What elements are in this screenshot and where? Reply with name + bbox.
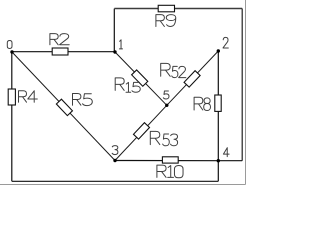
- wire top horizontal through R9: [114, 8, 242, 10]
- resistor R52 body rotated: [184, 71, 200, 87]
- label R15 with subscript: [115, 78, 140, 92]
- wire node0 down left leg: [11, 52, 13, 181]
- wire right edge to node4: [218, 160, 242, 162]
- node label 4: [223, 148, 229, 157]
- wire diagonal node2-node5 through R52: [167, 51, 219, 105]
- resistor R9 body: [158, 5, 174, 12]
- page frame right edge: [245, 0, 247, 185]
- resistor R53 body rotated: [133, 123, 149, 139]
- node label 3: [112, 146, 118, 155]
- resistor R10 body: [162, 157, 178, 163]
- label R52 with subscript: [161, 63, 186, 77]
- label R4: [19, 91, 38, 102]
- resistor R2 body: [52, 48, 68, 55]
- label R8: [194, 97, 210, 110]
- node 1 junction dot: [113, 50, 116, 53]
- label R10: [157, 165, 183, 178]
- wire node1 up: [113, 9, 115, 52]
- node 5 junction dot: [165, 104, 168, 107]
- wire diagonal node5-node3 through R53: [115, 105, 167, 160]
- node 2 junction dot: [217, 49, 220, 52]
- node label 0: [7, 41, 12, 49]
- wire diagonal node0-node3 through R5: [12, 52, 115, 161]
- wire bottom up to node4: [217, 161, 219, 182]
- node 4 junction dot: [217, 159, 220, 162]
- wire diagonal node1-node5 through R15: [115, 52, 167, 105]
- node label 5: [163, 91, 169, 99]
- resistor R5 body rotated: [56, 99, 72, 115]
- resistor R4 body: [8, 89, 15, 105]
- label R5: [73, 94, 93, 106]
- wire node0-node1: [12, 51, 115, 53]
- wire right edge down: [241, 9, 243, 161]
- label R2: [50, 34, 69, 45]
- node label 2: [223, 37, 228, 48]
- resistor R8 body: [215, 95, 221, 111]
- node label 1: [119, 40, 122, 49]
- node 3 junction dot: [113, 159, 116, 162]
- label R53 with subscript: [150, 131, 177, 145]
- node 0 junction dot: [10, 50, 13, 53]
- wire node3-node4 horizontal through R10: [115, 160, 218, 162]
- wire node2-node4 vertical through R8: [217, 51, 219, 161]
- label R9: [156, 15, 176, 27]
- page frame bottom edge: [0, 184, 246, 186]
- resistor R15 body rotated: [132, 70, 148, 86]
- wire bottom horizontal: [12, 180, 219, 182]
